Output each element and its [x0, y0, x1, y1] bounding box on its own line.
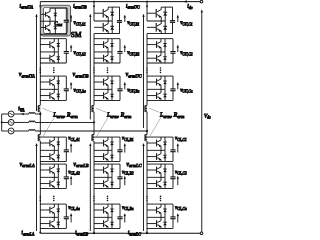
voltage arrow v_armUA — [36, 16, 38, 111]
current arrow i_armLA — [39, 230, 41, 233]
voltage arrow v_CU,B2 — [124, 47, 126, 52]
AC source Va — [2, 113, 9, 115]
voltage arrow v_CU,Ba — [124, 84, 126, 89]
wire AC phase B — [14, 121, 29, 123]
wire: bottom DC rail — [40, 232, 200, 234]
svg-text:vCU,A1: vCU,A1 — [74, 21, 86, 27]
callout line to lower inductor phase A — [43, 117, 55, 137]
submodule L-A2 — [40, 164, 69, 188]
wire: phase C lower arm chain — [146, 141, 148, 233]
ellipsis lower arm B — [93, 196, 95, 198]
svg-text:idc: idc — [187, 4, 193, 10]
callout line to upper inductor phase B — [96, 108, 106, 112]
submodule L-C2 — [147, 164, 176, 188]
submodule L-Aa — [40, 204, 69, 228]
ellipsis upper arm A — [40, 67, 42, 69]
junction bottom rail phase B — [93, 232, 95, 234]
voltage arrow v_CU,B1 — [124, 17, 126, 22]
ellipsis lower arm A — [40, 196, 42, 198]
current arrow i_armUB — [93, 6, 95, 9]
arm inductor L_arm lower phase B — [92, 135, 94, 141]
voltage arrow v_CU,C1 — [177, 17, 179, 22]
wire: phase A leg mid — [39, 112, 41, 135]
voltage arrow v_CL,B1 — [124, 145, 126, 152]
svg-text:iarmLB: iarmLB — [75, 230, 88, 236]
wire: phase B leg mid — [93, 112, 95, 135]
svg-text:vCL,Aa: vCL,Aa — [68, 206, 80, 212]
svg-text:vCU,Ca: vCU,Ca — [180, 89, 193, 95]
voltage arrow v_CU,C2 — [177, 47, 179, 52]
svg-text:vCU,Ba: vCU,Ba — [127, 89, 139, 95]
svg-text:varmLB: varmLB — [73, 162, 88, 168]
ellipsis upper arm B — [93, 67, 95, 69]
junction top rail phase C — [146, 1, 148, 3]
submodule U-A1 — [40, 8, 69, 34]
svg-text:varmUB: varmUB — [73, 72, 89, 78]
DC- terminal — [200, 232, 203, 235]
voltage arrow v_CU,Aa — [70, 84, 72, 89]
wire AC phase C — [14, 130, 29, 132]
submodule L-Ca — [147, 204, 176, 228]
svg-text:vCU,A2: vCU,A2 — [74, 51, 86, 57]
voltage arrow v_CU,A2 — [70, 47, 72, 52]
voltage arrow V_dc — [201, 12, 203, 232]
junction AC neutral — [1, 121, 3, 123]
AC source Vb — [2, 121, 9, 123]
wire AC phase A — [14, 113, 29, 115]
voltage arrow v_armLA — [36, 145, 38, 231]
submodule U-C2 — [147, 39, 176, 63]
submodule U-Ca — [147, 76, 176, 100]
callout line to upper inductor phase C — [149, 108, 159, 112]
current arrow i_VA — [20, 113, 23, 116]
svg-text:Larm, Rarm: Larm, Rarm — [52, 113, 77, 119]
svg-text:iarmLA: iarmLA — [21, 230, 34, 236]
svg-text:Vdc: Vdc — [204, 113, 211, 119]
current arrow i_armLC — [146, 230, 148, 233]
svg-text:vCU,C2: vCU,C2 — [180, 51, 193, 57]
wire: phase C leg mid — [146, 112, 148, 135]
AC-side inductor phase C — [29, 130, 35, 131]
arm inductor L_arm upper phase C — [145, 105, 147, 111]
svg-text:varmUA: varmUA — [19, 72, 35, 78]
svg-text:iarmUC: iarmUC — [126, 4, 140, 10]
wire AC phase B to leg — [35, 121, 94, 123]
voltage arrow v_armUC — [143, 16, 145, 128]
voltage arrow v_CL,A2 — [70, 178, 72, 185]
junction top rail phase B — [93, 1, 95, 3]
voltage arrow v_CU,A1 — [70, 17, 72, 22]
submodule L-A1 — [40, 137, 69, 161]
voltage arrow v_CL,Ba — [124, 215, 126, 222]
svg-text:vCU,B2: vCU,B2 — [127, 51, 139, 57]
voltage arrow v_CL,C1 — [177, 145, 179, 152]
voltage arrow v_CL,Aa — [70, 215, 72, 222]
svg-text:vCL,Ba: vCL,Ba — [122, 206, 134, 212]
voltage arrow v_CL,Ca — [177, 215, 179, 222]
voltage arrow v_armUB — [89, 16, 91, 120]
submodule L-B1 — [94, 137, 123, 161]
submodule U-B1 — [94, 7, 122, 33]
svg-text:vCL,B2: vCL,B2 — [122, 170, 134, 176]
svg-text:iarmUA: iarmUA — [19, 4, 33, 10]
svg-text:CSM: CSM — [54, 22, 62, 27]
arm inductor L_arm lower phase C — [145, 135, 147, 141]
svg-text:varmUC: varmUC — [126, 72, 143, 78]
voltage arrow v_CL,B2 — [124, 178, 126, 185]
node AC connection phase C — [146, 130, 148, 132]
SM inner white box — [44, 8, 68, 34]
svg-text:SM: SM — [71, 30, 82, 39]
wire AC phase A to leg — [35, 113, 40, 115]
submodule U-C1 — [147, 7, 175, 33]
svg-text:Larm, Rarm: Larm, Rarm — [159, 113, 184, 119]
wire: phase A lower arm chain — [39, 141, 41, 233]
svg-text:vCL,Ca: vCL,Ca — [175, 206, 187, 212]
wire: phase B lower arm chain — [93, 141, 95, 233]
current arrow i_armUA — [39, 6, 41, 9]
svg-text:Larm, Rarm: Larm, Rarm — [106, 113, 131, 119]
submodule L-Ba — [94, 204, 123, 228]
submodule U-Ba — [94, 76, 123, 100]
wire: phase A upper arm chain — [39, 2, 41, 106]
svg-text:iarmUB: iarmUB — [73, 4, 87, 10]
voltage arrow v_armLC — [143, 145, 145, 231]
AC source Vc — [2, 130, 9, 132]
SM highlight box (gray) — [41, 5, 71, 36]
wire: phase C upper arm chain — [146, 2, 148, 106]
AC-side inductor phase A — [29, 113, 35, 114]
submodule U-Aa — [40, 76, 69, 100]
current arrow i_armLB — [93, 230, 95, 233]
voltage arrow v_CU,Ca — [177, 84, 179, 89]
submodule L-B2 — [94, 164, 123, 188]
submodule U-A2 — [40, 39, 69, 63]
submodule L-C1 — [147, 137, 176, 161]
svg-text:vCU,C1: vCU,C1 — [180, 21, 193, 27]
svg-text:varmLA: varmLA — [20, 162, 35, 168]
ellipsis lower arm C — [146, 196, 148, 198]
svg-text:vCL,C1: vCL,C1 — [175, 137, 187, 143]
callout line to upper inductor phase A — [43, 108, 53, 112]
svg-text:vCL,C2: vCL,C2 — [175, 170, 187, 176]
wire AC phase C to leg — [35, 130, 147, 132]
ellipsis upper arm C — [146, 67, 148, 69]
arm inductor L_arm upper phase B — [92, 105, 94, 111]
svg-text:iarmLC: iarmLC — [128, 230, 141, 236]
submodule U-B2 — [94, 39, 123, 63]
svg-text:iVA: iVA — [18, 106, 25, 112]
junction bottom rail phase C — [146, 232, 148, 234]
wire: phase B upper arm chain — [93, 2, 95, 106]
node AC connection phase A — [39, 113, 41, 115]
svg-text:vCL,A1: vCL,A1 — [68, 137, 80, 143]
node AC connection phase B — [93, 121, 95, 123]
svg-text:varmLC: varmLC — [126, 162, 142, 168]
callout line to lower inductor phase B — [96, 117, 108, 137]
voltage arrow v_armLB — [89, 145, 91, 231]
svg-text:vCL,B1: vCL,B1 — [122, 137, 134, 143]
arm inductor L_arm lower phase A — [38, 135, 40, 141]
DC+ terminal — [200, 0, 203, 3]
AC neutral bus wire — [1, 114, 3, 131]
wire: top DC rail — [40, 1, 200, 3]
callout line to lower inductor phase C — [149, 117, 161, 137]
svg-text:vCL,A2: vCL,A2 — [68, 170, 80, 176]
voltage arrow v_CL,C2 — [177, 178, 179, 185]
svg-text:vCU,Aa: vCU,Aa — [74, 89, 86, 95]
AC-side inductor phase B — [29, 121, 35, 122]
svg-text:vCU,B1: vCU,B1 — [127, 21, 139, 27]
arm inductor L_arm upper phase A — [38, 105, 40, 111]
current arrow i_dc on top rail — [184, 0, 187, 3]
current arrow i_armUC — [146, 6, 148, 9]
voltage arrow v_CL,A1 — [70, 145, 72, 152]
